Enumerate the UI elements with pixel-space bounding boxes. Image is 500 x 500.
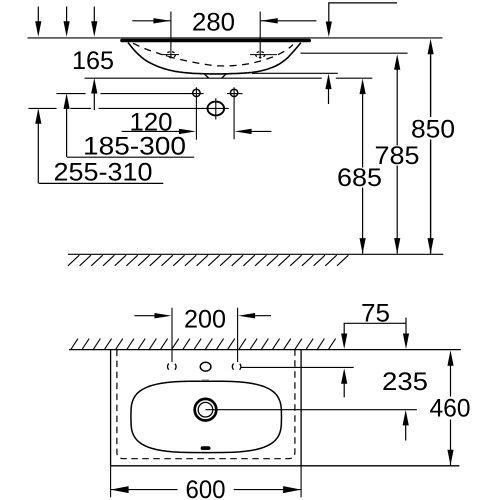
- wire 280 dimension line right tail: [261, 20, 317, 22]
- node 185-300 bottom arrowhead: [64, 93, 70, 109]
- wire 165 bottom stem: [93, 90, 95, 111]
- node fixing hole right: [230, 89, 237, 96]
- node drain inner circle (plan): [198, 402, 213, 417]
- node drain fitting trapezoid (front view): [204, 74, 226, 79]
- node tap hole right (front view, hidden ellipse): [256, 52, 265, 58]
- node 235 up arrowhead at drain line: [403, 410, 409, 426]
- label 685: [338, 168, 380, 186]
- wire 600 dimension line right: [234, 489, 301, 491]
- node basin rim bar (front view): [120, 39, 311, 42]
- node 785 bottom arrowhead: [394, 238, 400, 254]
- node basin depth up arrowhead: [325, 74, 331, 90]
- wire trap extension line y108 seg2: [70, 107, 91, 109]
- node 850 top arrowhead: [428, 39, 434, 55]
- wire 600 extension line right: [300, 466, 302, 497]
- wire drain centerline leader (plan): [206, 409, 417, 411]
- label 460: [430, 399, 469, 417]
- node 600 right arrowhead: [283, 486, 301, 493]
- wire 75 bracket: [344, 318, 406, 337]
- node 255-310 bottom arrowhead: [35, 108, 41, 124]
- wire 185-300 underline: [67, 156, 194, 158]
- wire 200 extension line left: [171, 308, 173, 362]
- wire 460 stem upper: [450, 362, 452, 397]
- wire 120 dimension line right tail: [246, 130, 272, 132]
- label 200: [185, 310, 225, 328]
- label 165: [74, 51, 113, 69]
- node overflow hole (plan): [201, 446, 211, 450]
- node 460 top arrowhead: [447, 350, 453, 366]
- label 280: [193, 13, 234, 31]
- node basin front edge (plan): [111, 465, 460, 467]
- wire 785 stem upper: [396, 66, 398, 146]
- node 850 bottom arrowhead: [428, 238, 434, 254]
- node 120 right arrowhead: [235, 129, 252, 134]
- wire top extension line of basin rim (850 reference): [28, 37, 443, 39]
- node overflow tick above bowl: [202, 379, 209, 381]
- node tap hole left (front view, hidden ellipse): [166, 52, 175, 58]
- label 75: [362, 304, 389, 322]
- node 255-310 top arrowhead: [35, 21, 41, 37]
- node 200 right arrowhead: [238, 313, 255, 318]
- wire 850 stem lower: [430, 140, 432, 254]
- label 600: [187, 480, 225, 498]
- wire trap extension line y108 seg3: [99, 107, 229, 109]
- node tap hole center (plan): [200, 362, 211, 371]
- label 185-300: [85, 137, 185, 155]
- wire basin bottom extension line y78: [85, 77, 322, 79]
- wire 600 extension line left: [110, 466, 112, 497]
- wire 185-300 bottom stem: [66, 105, 68, 157]
- node trap circle: [208, 102, 225, 116]
- wire 200 dimension line left tail: [134, 315, 160, 317]
- ground wall hatching (plan): [71, 339, 336, 350]
- node 185-300 top arrowhead: [64, 21, 70, 37]
- wire 280 extension line left: [170, 12, 172, 59]
- node 600 left arrowhead: [111, 486, 129, 493]
- node 235 down arrowhead at wall: [403, 334, 409, 350]
- node 120 left arrowhead: [179, 129, 196, 134]
- wire 785 stem lower: [396, 166, 398, 254]
- wire fixing holes extension line y93 right: [227, 93, 243, 95]
- wire 200 dimension line right tail: [250, 315, 271, 317]
- node 785 top arrowhead: [394, 54, 400, 69]
- node drain outer ring (plan): [195, 399, 217, 421]
- wire 200 extension line right: [237, 308, 239, 362]
- label 235: [383, 372, 426, 390]
- label 850: [412, 120, 454, 138]
- node 685 top arrowhead: [360, 79, 366, 95]
- node 75 up arrowhead at hole line: [341, 368, 347, 384]
- wire jog line top right: [329, 3, 397, 25]
- wire trap extension line y108 left: [28, 107, 56, 109]
- node fixing hole left: [193, 89, 200, 96]
- node 685 bottom arrowhead: [360, 238, 366, 254]
- node 280 left arrowhead: [153, 18, 170, 23]
- wire 120 dimension line left: [122, 130, 185, 132]
- node basin bowl outline (plan): [131, 381, 282, 452]
- wire 685 stem upper: [362, 90, 364, 168]
- wire bowl bottom extension line y73: [252, 72, 338, 74]
- wire hole centerline leader (plan): [241, 366, 354, 368]
- node tap hole left (plan, hidden): [168, 362, 177, 371]
- wire 255-310 dim top stem: [37, 7, 39, 26]
- wire 255-310 underline: [39, 182, 163, 184]
- wire 850 stem upper: [430, 50, 432, 117]
- wire fixing hole left vertical centerline: [195, 87, 197, 139]
- wire basin depth arrow stem: [328, 85, 330, 104]
- wire 460 stem lower: [450, 420, 452, 466]
- node 75 down arrowhead at wall: [341, 334, 347, 350]
- wire basin bottom extension line y78 right part: [336, 77, 373, 79]
- wire 600 dimension line left: [111, 489, 178, 491]
- wire fixing hole right vertical centerline: [233, 87, 235, 139]
- wire 685 stem lower: [362, 188, 364, 254]
- node 460 bottom arrowhead: [447, 450, 453, 466]
- node 280 right arrowhead: [261, 18, 278, 23]
- wire centerline of left tap hole: [163, 54, 179, 56]
- wire fixing holes extension line y93: [56, 93, 85, 95]
- label 120: [131, 113, 171, 131]
- node 200 left arrowhead: [155, 313, 172, 318]
- ground floor hatching: [68, 255, 349, 266]
- wire 280 dimension line left tail: [132, 20, 170, 22]
- node 165 bottom arrowhead: [91, 78, 97, 94]
- wire trap circle vertical centerline: [215, 98, 217, 119]
- node basin bowl outer profile (front view): [128, 43, 301, 74]
- wire 75 up arrow stem: [343, 380, 345, 398]
- node basin right edge (plan): [300, 350, 302, 466]
- label 255-310: [55, 163, 152, 181]
- wire 255-310 bottom stem: [37, 120, 39, 184]
- wire floor line: [68, 253, 443, 255]
- wire 235 up arrow stem: [405, 421, 407, 440]
- wire 165 dim top stem: [93, 7, 95, 26]
- node tap hole right (plan, hidden): [232, 362, 241, 371]
- label 785: [376, 146, 418, 164]
- wire 185-300 dim top stem: [66, 7, 68, 26]
- node basin bowl inner hidden profile (dashed): [133, 43, 293, 66]
- wire 280 extension line right: [259, 12, 261, 59]
- node basin left edge (plan): [110, 350, 112, 466]
- wire wall line (plan): [69, 349, 461, 351]
- wire centerline of right tap hole: [250, 54, 277, 56]
- node basin hidden underside outline (dashed): [117, 350, 295, 459]
- node 165 top arrowhead: [91, 21, 97, 37]
- node jog down arrowhead onto rim: [326, 22, 332, 38]
- wire 785 extension line y53: [301, 52, 408, 54]
- wire fixing holes extension line y93 mid: [101, 93, 204, 95]
